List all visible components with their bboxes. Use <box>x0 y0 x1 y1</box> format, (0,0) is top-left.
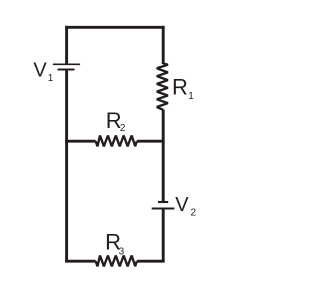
svg-text:V: V <box>33 59 47 81</box>
wire left upper (top wire to V1) <box>65 26 68 65</box>
label V1 <box>33 59 53 84</box>
svg-text:2: 2 <box>120 123 126 134</box>
svg-text:V: V <box>175 194 189 216</box>
svg-text:1: 1 <box>48 73 54 84</box>
wire middle right (R2 to right wire) <box>137 140 165 143</box>
svg-text:R: R <box>172 75 188 100</box>
svg-text:3: 3 <box>119 247 125 258</box>
wire middle left (left wire to R2) <box>65 140 96 143</box>
svg-text:2: 2 <box>191 208 197 219</box>
wire right lower (V2 to bottom wire) <box>162 209 165 263</box>
wire bottom left (left wire to R3) <box>65 260 96 263</box>
label V2 <box>175 194 196 219</box>
resistor R1 <box>157 63 168 109</box>
wire top <box>65 26 164 29</box>
label R1 <box>172 75 194 102</box>
battery V2 <box>152 202 175 209</box>
wire bottom right (R3 to right wire) <box>137 260 165 263</box>
resistor R3 <box>96 256 137 267</box>
resistor R2 <box>96 136 137 147</box>
wire right middle (R1 to V2) <box>162 110 165 202</box>
label R3 <box>105 229 125 257</box>
battery V1 <box>53 64 80 70</box>
wire right upper (top wire to R1) <box>162 26 165 64</box>
label R2 <box>106 108 126 134</box>
wire left lower (V1 to bottom wire) <box>65 70 68 263</box>
svg-text:1: 1 <box>188 91 194 102</box>
